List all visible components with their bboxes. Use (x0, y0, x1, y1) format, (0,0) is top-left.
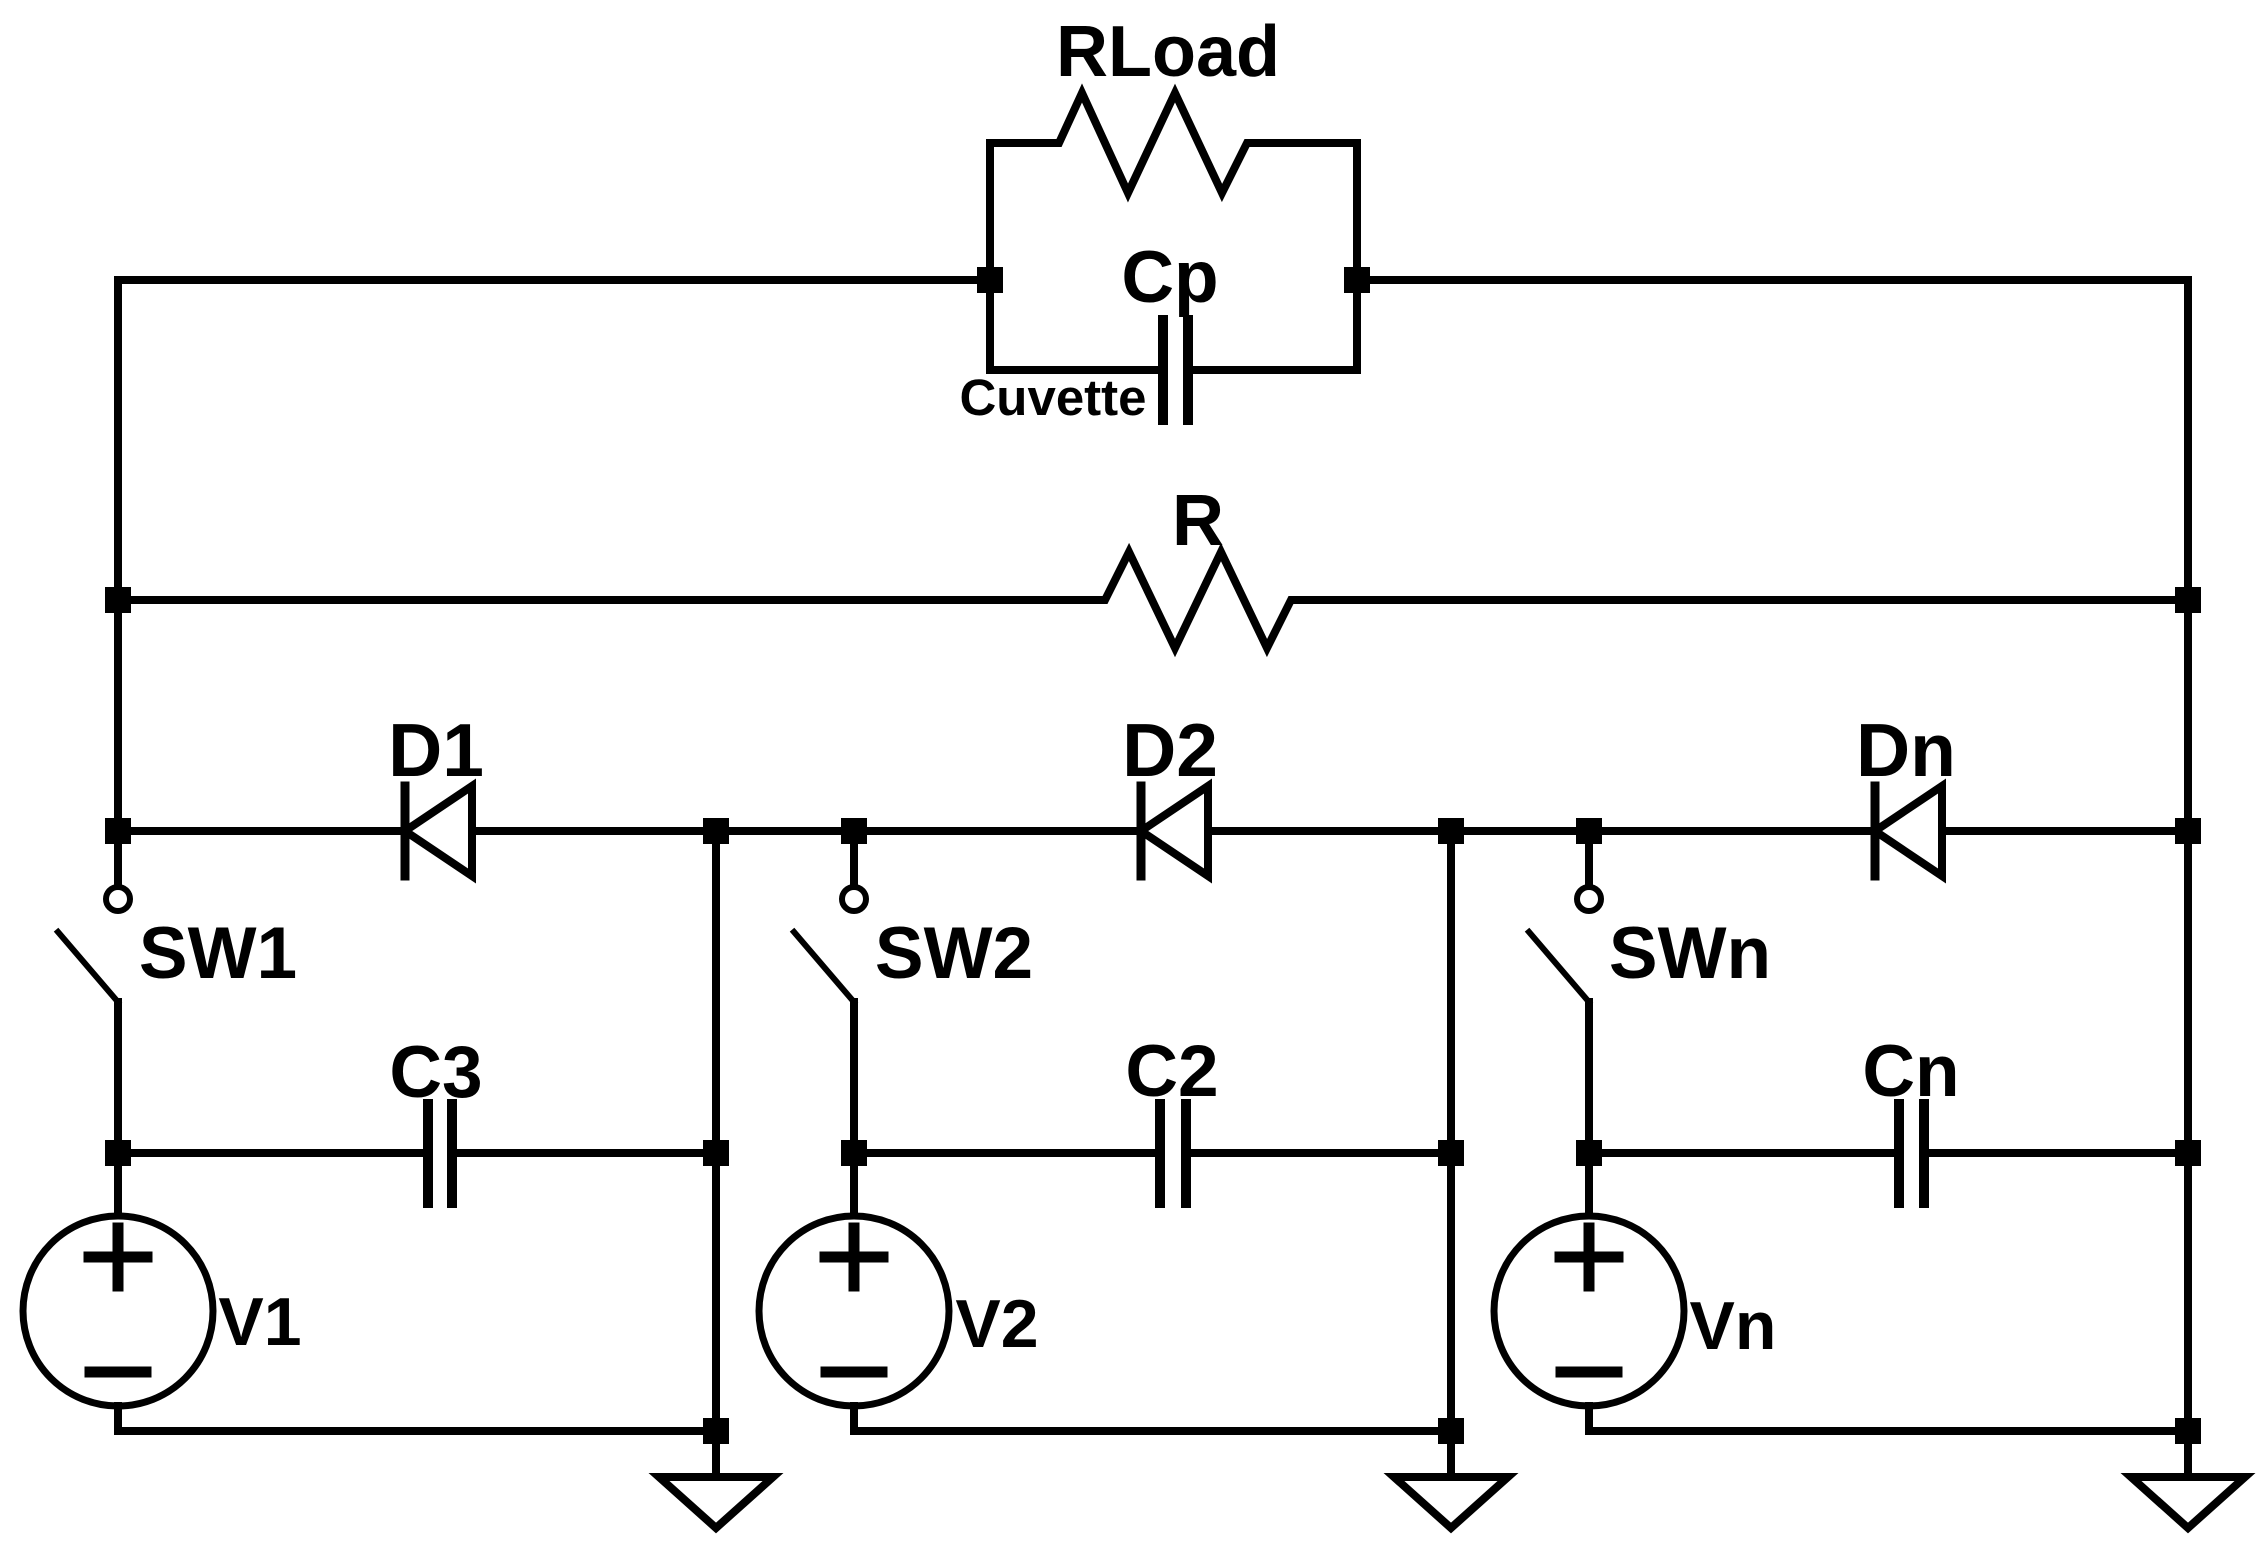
svg-text:Cuvette: Cuvette (959, 369, 1146, 426)
capacitor Cn (1899, 1104, 1924, 1203)
diode D1 (401, 786, 410, 876)
node dot bottom row x716 (703, 1418, 729, 1444)
node dot top-right of cuvette box (1344, 267, 1370, 293)
wire cuvette box bottom (990, 366, 1357, 374)
wire capacitor row cell 2 (854, 1149, 1451, 1157)
node dot R row right (2175, 587, 2201, 613)
svg-text:D1: D1 (388, 708, 484, 792)
ground 1 (712, 1431, 720, 1477)
wire bottom row cell 3 (1589, 1427, 2188, 1435)
node dot diode row x854 (841, 818, 867, 844)
node dot diode row x1451 (1438, 818, 1464, 844)
wire right main vertical (2184, 280, 2192, 1431)
svg-text:Cn: Cn (1862, 1031, 1959, 1112)
switch SWn (1585, 831, 1593, 886)
capacitor C3 (428, 1104, 452, 1203)
node dot cap row x716 (703, 1140, 729, 1166)
wire cuvette box left vertical (986, 143, 994, 370)
node dot cap row x118 (105, 1140, 131, 1166)
wire diode row (118, 827, 2188, 835)
svg-text:SWn: SWn (1609, 913, 1771, 994)
voltage source Vn (1585, 1153, 1593, 1216)
capacitor C2 (1160, 1104, 1186, 1203)
wire bottom row cell 1 (118, 1427, 716, 1435)
svg-text:V1: V1 (218, 1284, 301, 1360)
ground 2 (1447, 1431, 1455, 1477)
voltage source V2 (850, 1153, 858, 1216)
node dot R row left (105, 587, 131, 613)
ground 3 (2184, 1431, 2192, 1477)
svg-text:R: R (1172, 481, 1224, 561)
svg-text:Vn: Vn (1690, 1288, 1777, 1364)
svg-text:SW2: SW2 (875, 913, 1033, 994)
resistor R (118, 552, 2188, 648)
svg-text:Cp: Cp (1121, 237, 1218, 318)
svg-text:RLoad: RLoad (1056, 12, 1280, 92)
resistor RLoad (990, 93, 1357, 193)
wire top-left horizontal (118, 276, 990, 284)
node dot bottom row x2188 (2175, 1418, 2201, 1444)
capacitor Cp (1163, 320, 1188, 420)
svg-text:Dn: Dn (1856, 708, 1956, 792)
node dot cap row x2188 (2175, 1140, 2201, 1166)
wire bottom row cell 2 (854, 1427, 1451, 1435)
wire top-right horizontal (1357, 276, 2188, 284)
node dot diode row x2188 (2175, 818, 2201, 844)
node dot cap row x1451 (1438, 1140, 1464, 1166)
switch SW1 (114, 831, 122, 886)
diode D2 (1137, 786, 1146, 876)
wire capacitor row cell 1 (118, 1149, 716, 1157)
wire capacitor row cell 3 (1589, 1149, 2188, 1157)
node dot diode row x1589 (1576, 818, 1602, 844)
node dot bottom row x1451 (1438, 1418, 1464, 1444)
wire left main vertical (114, 280, 122, 831)
node dot cap row x1589 (1576, 1140, 1602, 1166)
node dot diode row x118 (105, 818, 131, 844)
wire ground column 1 vertical (712, 831, 720, 1431)
svg-text:SW1: SW1 (139, 913, 297, 994)
node dot diode row x716 (703, 818, 729, 844)
switch SW2 (850, 831, 858, 886)
voltage source V1 (114, 1153, 122, 1216)
diode Dn (1871, 786, 1880, 876)
wire cuvette box right vertical (1353, 143, 1361, 370)
node dot cap row x854 (841, 1140, 867, 1166)
svg-text:D2: D2 (1122, 708, 1218, 792)
svg-text:C2: C2 (1125, 1031, 1218, 1112)
node dot top-left of cuvette box (977, 267, 1003, 293)
svg-text:V2: V2 (955, 1286, 1038, 1362)
wire ground column 2 vertical (1447, 831, 1455, 1431)
svg-text:C3: C3 (389, 1032, 482, 1113)
